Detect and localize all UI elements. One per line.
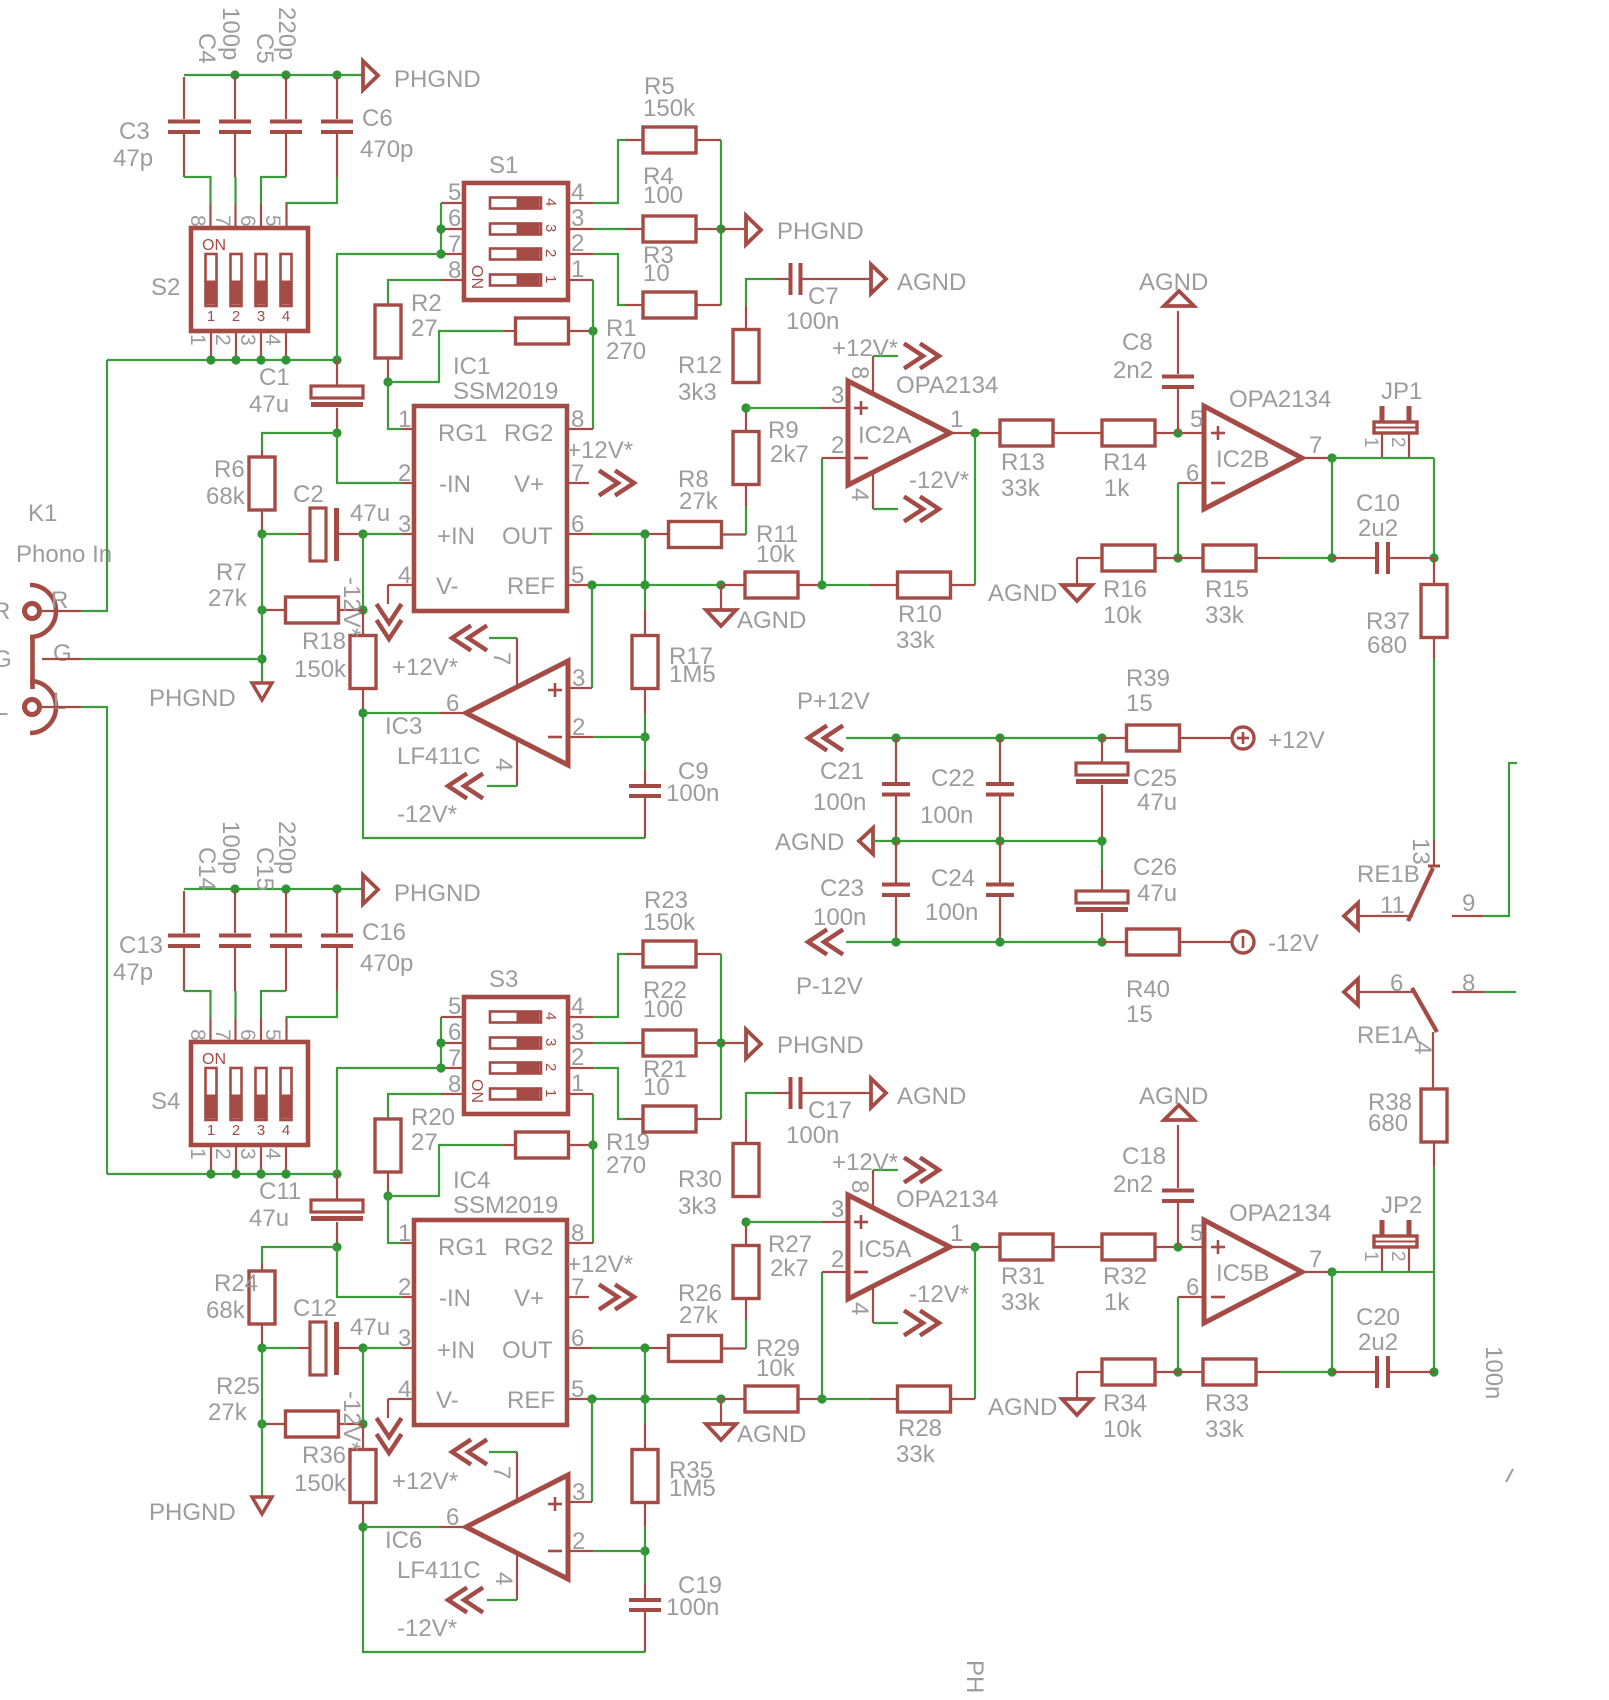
label IC2A bbox=[858, 422, 911, 449]
svg-text:IC6: IC6 bbox=[385, 1527, 422, 1554]
wire IC4 OUT to R26 bbox=[567, 1347, 668, 1349]
svg-text:3k3: 3k3 bbox=[678, 379, 717, 406]
wire input rail under S2 bbox=[107, 359, 337, 361]
svg-text:100n: 100n bbox=[666, 1594, 719, 1621]
label R5 150k bbox=[643, 73, 696, 122]
svg-text:ON: ON bbox=[202, 1051, 226, 1068]
svg-text:8: 8 bbox=[846, 366, 873, 379]
svg-text:IC4: IC4 bbox=[453, 1167, 490, 1194]
svg-text:1: 1 bbox=[1360, 437, 1381, 448]
svg-text:AGND: AGND bbox=[988, 580, 1057, 607]
label R20 27 bbox=[411, 1104, 455, 1156]
svg-text:RG2: RG2 bbox=[504, 1234, 553, 1261]
wire RE1A pin8 right bbox=[1483, 991, 1516, 993]
relay contact RE1A bbox=[1344, 979, 1437, 1089]
ground AGND symbol at R16 bbox=[988, 1372, 1092, 1421]
pin numbers IC3 bbox=[446, 652, 585, 771]
label C21 100n bbox=[813, 758, 866, 816]
svg-text:5: 5 bbox=[1190, 406, 1203, 433]
svg-text:C1: C1 bbox=[259, 364, 290, 391]
svg-text:IC2B: IC2B bbox=[1216, 446, 1269, 473]
junction dots on PHGND rail bbox=[230, 884, 341, 893]
svg-text:C22: C22 bbox=[931, 765, 975, 792]
pin numbers S2 top 8 7 6 5 (rotated) bbox=[186, 215, 284, 227]
svg-text:R13: R13 bbox=[1001, 449, 1045, 476]
svg-text:2: 2 bbox=[232, 308, 240, 325]
wire node to IC5A pin3 bbox=[746, 1221, 848, 1223]
label R21 10 bbox=[643, 1056, 687, 1101]
wire C17 to AGND bbox=[802, 1092, 871, 1094]
svg-text:S2: S2 bbox=[151, 274, 180, 301]
junction node OUT bbox=[640, 529, 649, 538]
label -12V* (IC2A) bbox=[909, 467, 969, 494]
label R33 33k bbox=[1205, 1390, 1249, 1443]
svg-text:4: 4 bbox=[1409, 1041, 1436, 1054]
svg-text:2: 2 bbox=[1387, 1251, 1408, 1262]
pin numbers S1 right 4 3 2 1 bbox=[571, 179, 584, 283]
svg-text:Phono In: Phono In bbox=[16, 541, 112, 568]
capacitor C1 47u (polarized) bbox=[311, 360, 363, 433]
svg-text:S1: S1 bbox=[489, 152, 518, 179]
resistor R24 68k bbox=[249, 1271, 275, 1324]
label C10 2u2 bbox=[1356, 490, 1400, 542]
junction node under C1 bbox=[332, 428, 341, 437]
wire R19 right node bbox=[568, 1144, 593, 1146]
svg-text:1M5: 1M5 bbox=[669, 661, 716, 688]
capacitor C22 100n bbox=[986, 738, 1014, 841]
junction node +IN to IC bbox=[358, 1343, 367, 1352]
wire R24 bottom to node bbox=[261, 1324, 263, 1348]
svg-text:2n2: 2n2 bbox=[1113, 1171, 1153, 1198]
svg-text:100n: 100n bbox=[925, 899, 978, 926]
wire IC2B out down to C10 bbox=[1331, 1272, 1333, 1372]
svg-text:R27: R27 bbox=[768, 1231, 812, 1258]
ground PHGND symbol top bbox=[363, 875, 481, 907]
svg-text:2u2: 2u2 bbox=[1358, 515, 1398, 542]
label R2 27 bbox=[411, 290, 442, 342]
ground PHGND symbol lower bbox=[252, 1497, 272, 1514]
wire C1 to R6 and IC1 pin2 bbox=[262, 433, 414, 483]
resistor R40 15 bbox=[1102, 929, 1232, 955]
svg-text:68k: 68k bbox=[206, 483, 246, 510]
svg-text:150k: 150k bbox=[643, 95, 696, 122]
wire R30 top to C17 bbox=[746, 1093, 789, 1144]
resistor R16 10k bbox=[1077, 545, 1178, 571]
svg-text:150k: 150k bbox=[643, 909, 696, 936]
junction node R11 right bbox=[817, 580, 826, 589]
svg-text:2: 2 bbox=[1387, 437, 1408, 448]
wire net PHGND rail (S4 caps) bbox=[184, 888, 363, 890]
resistor R11 10k bbox=[721, 572, 822, 598]
wire IC4 REF net bbox=[567, 1398, 721, 1400]
wire S1 pin7 to input rail bbox=[337, 254, 441, 360]
svg-text:1: 1 bbox=[186, 334, 209, 346]
resistor R15 33k bbox=[1178, 545, 1332, 571]
label JP1 bbox=[1381, 378, 1422, 405]
label R36 150k bbox=[294, 1442, 347, 1497]
resistor R35 1M5 bbox=[632, 1399, 658, 1503]
svg-text:8: 8 bbox=[186, 215, 209, 227]
ground AGND arrow power bbox=[775, 828, 873, 856]
wire IC5A pin2 from R11 node bbox=[822, 1272, 848, 1399]
resistor R21 10 bbox=[643, 1106, 696, 1132]
label R7 27k bbox=[208, 559, 248, 612]
resistor R1 270 bbox=[516, 318, 569, 344]
pin numbers S3 right 4 3 2 1 bbox=[571, 993, 584, 1097]
pin stubs S1 right bbox=[568, 203, 593, 280]
svg-text:4: 4 bbox=[490, 758, 517, 771]
svg-text:2k7: 2k7 bbox=[770, 441, 809, 468]
label R14 1k bbox=[1103, 449, 1147, 502]
ground AGND symbol above C8 bbox=[1139, 269, 1208, 306]
svg-text:G: G bbox=[53, 640, 72, 667]
label +12V* (IC2A) bbox=[832, 1149, 898, 1176]
label R25 27k bbox=[208, 1373, 260, 1426]
svg-text:ON: ON bbox=[468, 265, 485, 289]
label C17 100n bbox=[786, 1097, 852, 1149]
wire IC2B pin6 feedback bbox=[1178, 483, 1204, 558]
pin numbers S3 left 5 6 7 8 bbox=[448, 993, 461, 1098]
svg-text:C17: C17 bbox=[808, 1097, 852, 1124]
resistor R36 150k bbox=[350, 1424, 376, 1527]
junction node R1/RG2 bbox=[588, 326, 597, 335]
svg-text:LF411C: LF411C bbox=[397, 1557, 481, 1584]
junction node R7 left bbox=[257, 605, 266, 614]
svg-text:C23: C23 bbox=[820, 875, 864, 902]
svg-text:JP1: JP1 bbox=[1381, 378, 1422, 405]
junction nodes REF row bbox=[587, 1394, 725, 1403]
junction node C10 right bbox=[1429, 553, 1438, 562]
label R6 68k bbox=[206, 456, 246, 510]
svg-text:33k: 33k bbox=[1001, 1289, 1041, 1316]
svg-text:270: 270 bbox=[606, 338, 646, 365]
resistor R25 27k bbox=[262, 1411, 363, 1437]
resistor R32 1k bbox=[1102, 1234, 1155, 1260]
supply -12V* IC6 pin4 bbox=[448, 1553, 517, 1613]
svg-text:13: 13 bbox=[1407, 838, 1434, 865]
svg-text:5: 5 bbox=[261, 215, 284, 227]
svg-text:10k: 10k bbox=[756, 1355, 796, 1382]
svg-text:4: 4 bbox=[846, 1302, 873, 1315]
resistor R9 2k7 bbox=[733, 432, 759, 485]
svg-text:8: 8 bbox=[571, 406, 584, 433]
svg-text:+12V: +12V bbox=[1268, 727, 1325, 754]
svg-text:+12V*: +12V* bbox=[567, 437, 633, 464]
label R23 150k bbox=[643, 887, 696, 936]
label C7 100n bbox=[786, 283, 839, 335]
svg-text:C20: C20 bbox=[1356, 1304, 1400, 1331]
wire REF down to IC6 pin3 bbox=[568, 1399, 592, 1502]
svg-text:R7: R7 bbox=[216, 559, 247, 586]
label -12V* (IC3) bbox=[397, 1615, 457, 1642]
svg-text:470p: 470p bbox=[360, 136, 413, 163]
svg-text:3: 3 bbox=[257, 308, 265, 325]
wire node to IC3 output bbox=[363, 712, 466, 714]
svg-text:V+: V+ bbox=[514, 1285, 544, 1312]
svg-text:-12V*: -12V* bbox=[338, 1391, 365, 1451]
capacitor C4 bbox=[219, 77, 251, 177]
capacitor C12 47u (polarized horizontal) bbox=[262, 1322, 363, 1375]
label R22 100 bbox=[643, 977, 687, 1023]
svg-text:1: 1 bbox=[1360, 1251, 1381, 1262]
svg-text:-IN: -IN bbox=[439, 1285, 471, 1312]
wire C15 to S4 pin6 bbox=[261, 991, 286, 1043]
svg-text:R: R bbox=[0, 598, 10, 625]
pin stubs S1 left bbox=[441, 203, 464, 280]
label R30 3k3 bbox=[678, 1166, 722, 1220]
svg-text:27: 27 bbox=[411, 1129, 438, 1156]
wire S3 pin2 to R21 bbox=[593, 1068, 643, 1119]
relay RE1B pin 9 bbox=[1452, 890, 1483, 917]
label +12V* (IC3) bbox=[392, 1468, 458, 1495]
wire R37 to relay RE1B pin13 bbox=[1433, 658, 1435, 866]
junction dots AGND rail bbox=[891, 836, 1106, 845]
svg-text:C8: C8 bbox=[1122, 329, 1153, 356]
label R38 680 bbox=[1368, 1089, 1412, 1137]
resistor R39 15 bbox=[1102, 725, 1232, 751]
label S4 bbox=[151, 1088, 180, 1115]
svg-text:+IN: +IN bbox=[437, 1337, 475, 1364]
svg-text:2: 2 bbox=[831, 432, 844, 459]
label C1 47u bbox=[249, 364, 290, 418]
junction node IC2B out bbox=[1327, 453, 1336, 462]
supply V+ arrow IC1 pin7 bbox=[567, 471, 634, 496]
resistor R5 150k bbox=[643, 127, 696, 153]
junction node R4 right bbox=[716, 224, 725, 233]
junction node G wire bbox=[257, 654, 266, 663]
junction node IC3 pin2 bbox=[640, 732, 649, 741]
label C23 100n bbox=[813, 875, 866, 931]
ground AGND symbol at R16 bbox=[988, 558, 1092, 607]
pin stubs S3 left bbox=[441, 1017, 464, 1094]
op-amp IC5B OPA2134 triangle bbox=[1204, 1220, 1302, 1323]
wire K1 G pin to PHGND node bbox=[42, 658, 262, 660]
wire S3 pin3 to R22 bbox=[593, 1042, 643, 1044]
pin numbers S2 bottom 1 2 3 4 (rotated) bbox=[186, 334, 284, 346]
ground PHGND symbol top bbox=[363, 61, 481, 93]
label R12 3k3 bbox=[678, 352, 722, 406]
svg-text:220p: 220p bbox=[273, 821, 300, 874]
svg-text:+12V*: +12V* bbox=[392, 1468, 458, 1495]
resistor R30 3k3 bbox=[733, 1144, 759, 1197]
svg-text:47u: 47u bbox=[249, 1205, 289, 1232]
svg-text:100: 100 bbox=[643, 996, 683, 1023]
wire node to IC3 pin2 bbox=[568, 736, 645, 738]
capacitor C13 bbox=[168, 891, 200, 991]
label R39 15 bbox=[1126, 665, 1170, 717]
svg-text:47u: 47u bbox=[350, 500, 390, 527]
svg-text:-12V*: -12V* bbox=[338, 577, 365, 637]
svg-text:-12V*: -12V* bbox=[397, 1615, 457, 1642]
svg-text:3: 3 bbox=[398, 511, 411, 538]
supply +12V* IC5A pin8 bbox=[873, 1158, 939, 1209]
svg-text:R34: R34 bbox=[1103, 1390, 1147, 1417]
wire IC5B output bbox=[1302, 1271, 1332, 1273]
wire node to IC6 pin2 bbox=[568, 1550, 645, 1552]
wire net P+12V rail bbox=[846, 737, 1102, 739]
wire IC2A out down to R10 bbox=[974, 1247, 976, 1399]
resistor R23 150k bbox=[643, 941, 696, 967]
label S2 bbox=[151, 274, 180, 301]
junction node R4 right bbox=[716, 1038, 725, 1047]
wire IC2A out down to R10 bbox=[974, 433, 976, 585]
ground AGND symbol above C8 bbox=[1139, 1083, 1208, 1120]
svg-text:2: 2 bbox=[572, 714, 585, 741]
pin stub IC4 pin4 V- bbox=[388, 1398, 414, 1400]
pin numbers S1 left 5 6 7 8 bbox=[448, 179, 461, 284]
junction node under C11 bbox=[332, 1242, 341, 1251]
wire R32 right to IC5B pin5 bbox=[1155, 1246, 1204, 1248]
resistor R26 27k bbox=[669, 1336, 722, 1362]
wire REF down to IC3 pin3 bbox=[568, 585, 592, 688]
wire R5/R4/R3 right tie bbox=[696, 954, 721, 1119]
svg-text:R16: R16 bbox=[1103, 576, 1147, 603]
svg-text:5: 5 bbox=[1190, 1220, 1203, 1247]
svg-text:AGND: AGND bbox=[775, 829, 844, 856]
svg-text:PHGND: PHGND bbox=[777, 1032, 864, 1059]
svg-text:P-12V: P-12V bbox=[796, 973, 863, 1000]
svg-text:150k: 150k bbox=[294, 656, 347, 683]
svg-text:2: 2 bbox=[398, 460, 411, 487]
wire node to S1 pin1 and IC1 pin8 bbox=[567, 280, 593, 429]
svg-text:-IN: -IN bbox=[439, 471, 471, 498]
label IC5A bbox=[858, 1236, 911, 1263]
wire C14 to S4 pin7 bbox=[234, 991, 236, 1043]
capacitor C5 bbox=[270, 77, 302, 177]
svg-text:2: 2 bbox=[542, 249, 559, 257]
svg-text:6: 6 bbox=[1390, 970, 1403, 997]
resistor R12 3k3 bbox=[733, 330, 759, 383]
svg-text:S4: S4 bbox=[151, 1088, 180, 1115]
junction node R1/RG2 bbox=[588, 1140, 597, 1149]
svg-text:AGND: AGND bbox=[897, 269, 966, 296]
svg-text:R28: R28 bbox=[898, 1415, 942, 1442]
label C19 100n bbox=[666, 1572, 722, 1621]
pin stubs S3 right bbox=[568, 1017, 593, 1094]
capacitor C15 bbox=[270, 891, 302, 991]
label R17 1M5 bbox=[669, 643, 716, 688]
wire R6 bottom to node bbox=[261, 510, 263, 534]
capacitor C2 47u (polarized horizontal) bbox=[262, 508, 363, 561]
svg-text:V+: V+ bbox=[514, 471, 544, 498]
svg-text:AGND: AGND bbox=[737, 607, 806, 634]
resistor R3 10 bbox=[643, 292, 696, 318]
svg-text:27k: 27k bbox=[208, 1399, 248, 1426]
label C6 470p bbox=[360, 105, 413, 163]
label IC6 LF411C bbox=[385, 1527, 481, 1584]
wire S3 pins 5-6-7 tie bbox=[440, 1017, 442, 1068]
svg-text:47u: 47u bbox=[249, 391, 289, 418]
label R27 2k7 bbox=[768, 1231, 812, 1282]
svg-text:100p: 100p bbox=[217, 7, 244, 60]
svg-text:-12V*: -12V* bbox=[909, 1281, 969, 1308]
wire R8 right up to R9 bbox=[722, 484, 746, 535]
label R8 27k bbox=[678, 466, 719, 515]
svg-text:REF: REF bbox=[507, 573, 555, 600]
capacitor C8 2n2 bbox=[1162, 311, 1194, 433]
wire input rail under S4 bbox=[107, 1173, 337, 1175]
svg-text:-12V*: -12V* bbox=[909, 467, 969, 494]
svg-text:4: 4 bbox=[846, 488, 873, 501]
junction node R7 left bbox=[257, 1419, 266, 1428]
wire IC2B output bbox=[1302, 457, 1332, 459]
svg-text:AGND: AGND bbox=[897, 1083, 966, 1110]
svg-text:6: 6 bbox=[446, 690, 459, 717]
wire OUT down to REF row bbox=[644, 534, 646, 585]
svg-text:C13: C13 bbox=[119, 932, 163, 959]
junction node IC2B out bbox=[1327, 1267, 1336, 1276]
wire IC1 OUT to R8 bbox=[567, 533, 668, 535]
label S3 bbox=[489, 966, 518, 993]
svg-text:2: 2 bbox=[232, 1122, 240, 1139]
label R29 10k bbox=[756, 1335, 800, 1382]
svg-text:PHGND: PHGND bbox=[394, 66, 481, 93]
wire RE1B pin9 up bbox=[1483, 763, 1517, 916]
junction node IC2A pin3 bbox=[741, 403, 750, 412]
svg-text:7: 7 bbox=[1309, 1246, 1322, 1273]
capacitor C23 100n bbox=[882, 841, 910, 942]
svg-text:68k: 68k bbox=[206, 1297, 246, 1324]
svg-text:8: 8 bbox=[1462, 970, 1475, 997]
svg-text:C4: C4 bbox=[193, 33, 220, 64]
label IC1 SSM2019 bbox=[453, 353, 558, 405]
ground AGND arrow right of C7 bbox=[871, 1079, 966, 1111]
label -12V* (rotated) bbox=[338, 1391, 365, 1451]
wire S3 pin4 to R23 bbox=[593, 954, 643, 1017]
supply arrow P+12V bbox=[797, 688, 870, 751]
pin numbers JP2 1 2 (rotated) bbox=[1360, 1251, 1408, 1262]
wire node to R1 left and IC1 pin1 bbox=[388, 331, 516, 429]
supply arrow P-12V bbox=[796, 930, 863, 1001]
wire IC2A pin2 from R11 node bbox=[822, 458, 848, 585]
svg-text:15: 15 bbox=[1126, 1001, 1153, 1028]
svg-text:R25: R25 bbox=[216, 1373, 260, 1400]
svg-text:100n: 100n bbox=[666, 780, 719, 807]
resistor R2 27 bbox=[375, 305, 401, 358]
wire R38 bottom to JP2 node bbox=[1433, 1142, 1435, 1272]
svg-text:11: 11 bbox=[1380, 892, 1405, 919]
junction dots S1 tie bbox=[436, 224, 445, 258]
svg-text:3: 3 bbox=[831, 382, 844, 409]
wire IC2A output bbox=[950, 432, 1000, 434]
op-amp IC2A OPA2134 triangle bbox=[848, 381, 950, 485]
ground AGND symbol at REF bbox=[706, 585, 806, 634]
wire S3 pin7 to input rail bbox=[337, 1068, 441, 1174]
svg-text:100n: 100n bbox=[786, 1122, 839, 1149]
capacitor C21 100n bbox=[882, 738, 910, 841]
resistor R27 2k7 bbox=[733, 1246, 759, 1299]
junction dots on PHGND rail bbox=[230, 70, 341, 79]
svg-text:33k: 33k bbox=[1205, 602, 1245, 629]
resistor R37 680 bbox=[1421, 558, 1447, 658]
wire R26 right up to R27 bbox=[722, 1298, 746, 1349]
label R40 15 bbox=[1126, 976, 1170, 1028]
supply -12V* IC5A pin4 bbox=[873, 1286, 939, 1336]
label +12V* at IC pin7 bbox=[567, 437, 633, 464]
label C11 47u bbox=[249, 1178, 301, 1232]
wire IC2B out to JP and right bbox=[1332, 458, 1434, 558]
junction node +IN to IC bbox=[358, 529, 367, 538]
wire R35 bottom to node bbox=[644, 1502, 646, 1551]
svg-text:10k: 10k bbox=[756, 541, 796, 568]
svg-text:2k7: 2k7 bbox=[770, 1255, 809, 1282]
wire C3 to S2 pin8 bbox=[184, 177, 211, 229]
svg-text:33k: 33k bbox=[896, 627, 936, 654]
svg-text:OPA2134: OPA2134 bbox=[896, 1186, 998, 1213]
wire C4 to S2 pin7 bbox=[234, 177, 236, 229]
supply +12V* IC2A pin8 bbox=[873, 344, 939, 395]
label +12V* at IC pin7 bbox=[567, 1251, 633, 1278]
